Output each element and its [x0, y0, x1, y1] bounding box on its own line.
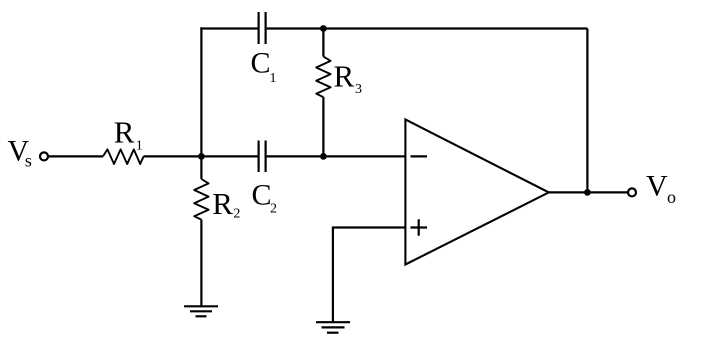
resistor R2 vertical wire from node A: [200, 156, 202, 179]
svg-text:s: s: [25, 150, 32, 170]
terminal Vs (open circle): [40, 152, 48, 160]
svg-text:C: C: [251, 46, 271, 79]
capacitor C2: [259, 141, 266, 173]
op-amp minus sign: [411, 155, 428, 157]
wire R2 to ground: [200, 220, 202, 307]
svg-text:1: 1: [270, 71, 277, 86]
svg-text:2: 2: [270, 202, 277, 217]
label Vo: [646, 170, 676, 208]
resistor R1: [103, 149, 144, 164]
wire node A up to top rail: [200, 27, 202, 156]
node output (junction dot): [584, 189, 591, 196]
wire top rail right segment: [267, 27, 588, 29]
wire R3 to node B: [322, 97, 324, 156]
svg-text:1: 1: [136, 139, 143, 154]
wire top rail left segment: [200, 27, 257, 29]
ground (below R2): [184, 306, 218, 316]
node A (junction dot): [198, 153, 205, 160]
node B (junction dot): [320, 153, 327, 160]
terminal Vo (open circle): [628, 188, 636, 196]
svg-text:R: R: [114, 114, 135, 149]
label R2: [212, 186, 240, 221]
wire C2 to node B: [267, 155, 324, 157]
svg-text:V: V: [646, 170, 668, 203]
wire node A to C2: [201, 155, 257, 157]
label C2: [252, 178, 278, 216]
capacitor C1: [259, 12, 266, 44]
resistor R2: [194, 179, 208, 220]
wire R1 to node A: [144, 155, 202, 157]
label Vs: [8, 135, 32, 171]
wire node to R3: [322, 29, 324, 57]
wire feedback vertical: [586, 29, 588, 193]
wire op-amp noninverting input: [333, 228, 406, 323]
label R1: [114, 114, 143, 153]
wire node B to op-amp inverting input: [323, 155, 405, 157]
svg-text:2: 2: [233, 206, 240, 221]
op-amp U1: [405, 120, 548, 265]
wire op-amp output: [549, 191, 628, 193]
wire Vs to R1: [49, 155, 104, 157]
svg-text:C: C: [252, 178, 272, 211]
svg-text:R: R: [334, 59, 355, 94]
resistor R3: [316, 57, 330, 98]
svg-text:R: R: [212, 186, 233, 221]
svg-text:3: 3: [355, 82, 362, 97]
node C1-R3 (junction dot on top rail): [320, 25, 327, 32]
op-amp plus sign: [411, 219, 428, 235]
label C1: [251, 46, 277, 86]
label R3: [334, 59, 363, 98]
ground (op-amp noninverting input): [316, 322, 350, 333]
svg-text:o: o: [667, 187, 676, 207]
